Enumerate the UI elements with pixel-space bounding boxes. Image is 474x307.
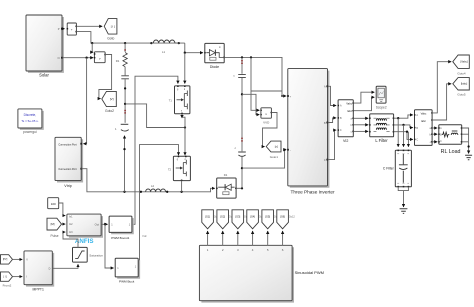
goto tag Goto5 [Iabc]: [453, 78, 470, 97]
svg-text:[x]: [x]: [275, 145, 278, 149]
svg-text:VVD: VVD: [263, 121, 270, 125]
wire VI2 c to L Filter: [353, 130, 368, 132]
wire top rail corner down to Diode input: [185, 43, 203, 53]
svg-text:D1: D1: [224, 173, 228, 177]
goto tag Goto4 [Vabc]: [453, 55, 470, 76]
wire C Filter bottoms joined to ground: [398, 187, 408, 191]
wire VI2 a to L Filter: [353, 117, 368, 119]
svg-text:C: C: [324, 159, 326, 162]
wire Solar.N to VM1 minus: [63, 57, 93, 59]
wire inverter B out to VI2 B: [328, 118, 337, 123]
svg-text:Goto5: Goto5: [457, 93, 466, 97]
wire VI2 b to L Filter: [353, 124, 368, 126]
wire CM1 to DC+ rail (top rail y43): [76, 32, 185, 43]
wire L Filter A to VI1 with C-filter tap: [394, 115, 413, 118]
svg-text:In1: In1: [69, 216, 73, 219]
goto tag Goto2 [V]: [102, 91, 117, 112]
svg-text:L Filter: L Filter: [375, 138, 388, 143]
svg-text:Saturation: Saturation: [89, 253, 103, 257]
junction bottom rail battery branch: [123, 191, 125, 193]
wire From1 to MPPT1: [13, 258, 23, 260]
svg-text:Iabc: Iabc: [421, 119, 427, 123]
svg-text:[M]: [M]: [51, 222, 55, 226]
wire DC- to inverter minus port: [242, 150, 286, 168]
wire gate T2 from PWM Buck (long vertical x139.5): [138, 145, 178, 267]
wire PWM out 6 up to tag S6: [282, 231, 284, 245]
voltage measurement VVD (DC link): [260, 108, 272, 125]
svg-text:Iabc: Iabc: [347, 109, 353, 113]
resistor R1 (vertical, on RC branch): [116, 43, 128, 67]
wire DC midpoint to VVD input 2: [242, 94, 259, 114]
wire PWM out 2 up to tag S2: [222, 231, 224, 245]
svg-text:Goto1: Goto1: [270, 155, 279, 159]
from tag Pulse [M]: [47, 218, 62, 238]
svg-text:Ts = 5e-05 s.: Ts = 5e-05 s.: [21, 119, 38, 123]
junction DC link midpoint: [241, 93, 243, 95]
voltage measurement VM1: [94, 52, 106, 63]
svg-text:[S2]: [S2]: [220, 215, 225, 219]
wire VI1 Iabc to Goto5: [432, 84, 451, 120]
svg-text:Goto: Goto: [107, 37, 114, 41]
junction bottom rail at buck gate wire: [140, 191, 142, 193]
svg-text:N: N: [58, 56, 60, 60]
svg-text:Three Phase Inverter: Three Phase Inverter: [290, 190, 334, 195]
junction on top rail at voltage-meas branch: [91, 42, 93, 44]
transistor T1 (boost MOSFET): [169, 85, 190, 114]
block PWM Boost1: [109, 216, 133, 240]
wire N rail down to Vtrip top port: [83, 58, 86, 144]
svg-text:MPPT1: MPPT1: [33, 287, 44, 291]
svg-text:Vdc: Vdc: [142, 234, 147, 238]
svg-text:P: P: [58, 27, 60, 31]
svg-text:Goto4: Goto4: [457, 72, 466, 76]
svg-text:RL Load: RL Load: [441, 149, 461, 155]
subsystem L Filter: [369, 114, 394, 143]
svg-text:D: D: [49, 267, 51, 270]
svg-text:Out: Out: [95, 222, 100, 226]
wire constant to ANFIS In1: [59, 203, 66, 216]
svg-text:Vabc: Vabc: [346, 101, 352, 105]
three-phase V-I measurement VI2: [338, 100, 354, 143]
wire Solar.P to CM1: [63, 28, 65, 30]
svg-text:VI2: VI2: [343, 139, 348, 143]
saturation block: [73, 247, 104, 262]
svg-text:C: C: [340, 129, 342, 132]
wire crosslink at y91: [251, 90, 282, 92]
subsystem Sinusoidal PWM: [199, 245, 324, 301]
wire inverter A out to VI2 A: [328, 86, 337, 105]
capacitor C1 (PV side): [121, 67, 129, 123]
svg-text:Goto2: Goto2: [105, 109, 114, 113]
ground G2 (RL Load neutral): [465, 155, 472, 159]
inductor L1 (boost): [151, 40, 178, 54]
wire L Filter B to VI1 with C-filter tap: [394, 125, 413, 128]
svg-text:C: C: [416, 139, 418, 142]
junction DC- at D1: [241, 187, 243, 189]
junction MOSFET1 drain tap: [184, 52, 186, 54]
svg-text:[S3]: [S3]: [235, 215, 240, 219]
junction on N wire to battery subsystem: [85, 57, 87, 59]
subsystem MPPT1: [24, 251, 53, 291]
junction DC link capacitor branch: [241, 56, 243, 58]
junction DC- branch to inverter: [241, 167, 243, 169]
wire battery node to MOSFET midpoint: [125, 104, 185, 128]
svg-text:[PV]: [PV]: [3, 259, 8, 261]
svg-text:L1: L1: [162, 50, 166, 54]
junction ANFIS out branch: [104, 223, 106, 225]
goto tag Goto7 [S1]: [202, 210, 219, 229]
svg-text:[Vabc]: [Vabc]: [460, 60, 467, 64]
ground G1 (below C Filter): [400, 209, 408, 214]
svg-text:From2: From2: [3, 283, 12, 287]
from tag From1 [V]: [1, 255, 13, 264]
wire Pulse to ANFIS In2: [62, 223, 66, 225]
wire Diode output DC+ rail to inverter: [224, 57, 286, 96]
svg-text:[ I ]: [ I ]: [3, 276, 7, 279]
junction MOSFET midpoint: [184, 126, 186, 128]
wire VI1 b to RL Load: [432, 133, 437, 135]
svg-text:[V]: [V]: [110, 97, 114, 101]
goto tag Goto9 [S3]: [232, 210, 249, 229]
subsystem Vtrip (battery, connection ports): [55, 137, 82, 188]
block PWM Buck: [115, 258, 139, 283]
wire CM1 signal to Goto [I]: [76, 25, 102, 27]
three-phase V-I measurement VI1 (load side): [414, 110, 433, 146]
svg-text:Solar: Solar: [39, 73, 49, 78]
svg-text:L2: L2: [151, 184, 155, 188]
wire inverter C out to VI2 C: [328, 130, 337, 160]
inductor L2 (buck): [146, 184, 166, 192]
wire PWM out 3 up to tag S3: [237, 231, 239, 245]
svg-text:powergui: powergui: [23, 130, 37, 134]
svg-text:Go12: Go12: [289, 216, 296, 219]
scope Scope2: [376, 86, 387, 109]
svg-text:In2: In2: [69, 223, 73, 226]
wire PWM out 5 up to tag S5: [267, 231, 269, 245]
junction battery tap node: [124, 103, 126, 105]
subsystem C Filter: [383, 150, 412, 188]
wire T1 source down to T2 drain (midpoint): [181, 114, 183, 118]
svg-text:[Iabc]: [Iabc]: [461, 82, 468, 86]
svg-text:Connection Port: Connection Port: [58, 167, 77, 171]
wire rail to VM1 plus input: [92, 43, 93, 52]
goto tag Goto8 [S2]: [217, 210, 234, 229]
svg-text:Connection Port: Connection Port: [58, 143, 77, 147]
wire VM1 output to Goto2: [99, 55, 112, 99]
svg-text:100: 100: [51, 202, 56, 206]
battery cell B1 (electrolytic symbol): [115, 124, 129, 131]
svg-text:[S5]: [S5]: [265, 215, 270, 219]
diode Diode (boost output diode): [204, 43, 225, 69]
junction inductor L1 right terminal: [178, 42, 180, 44]
wire RL Load star point to ground: [462, 128, 469, 142]
wire MPPT1 output up to saturation: [52, 264, 78, 268]
junction below C1: [124, 87, 126, 89]
svg-text:Pulse: Pulse: [51, 234, 59, 238]
svg-text:Diode: Diode: [210, 65, 219, 69]
goto tag Goto12 [S6]: [277, 210, 296, 229]
wire VI1 a to RL Load: [432, 127, 437, 129]
wire VI1 c to RL Load: [432, 141, 437, 143]
svg-text:PWM Boost1: PWM Boost1: [111, 236, 129, 240]
wire DC+ branch to VVD input 1: [251, 57, 259, 110]
wire L Filter C to VI1 with C-filter tap: [394, 132, 413, 140]
svg-text:Vtrip: Vtrip: [64, 184, 71, 188]
wire drain from rail junction to T1: [184, 53, 186, 84]
junction bottom rail MOSFET2 source: [180, 191, 182, 193]
capacitor C2 (DC link upper): [233, 57, 245, 151]
wire VI1 Vabc to Goto4: [432, 62, 451, 113]
junction inductor L1 left terminal: [150, 42, 152, 44]
junction on top rail at RC branch: [124, 42, 126, 44]
from tag From2 [I]: [1, 272, 13, 287]
svg-text:[S4]: [S4]: [250, 215, 255, 219]
goto tag Goto11 [S5]: [262, 210, 280, 229]
wire Vtrip bottom port to bottom rail y192: [81, 169, 214, 192]
svg-text:Sinusoidal PWM: Sinusoidal PWM: [295, 270, 324, 275]
wire From2 to MPPT1: [13, 276, 23, 278]
svg-text:[ I ]: [ I ]: [111, 24, 115, 28]
svg-text:Discrete,: Discrete,: [24, 113, 37, 117]
constant block 100: [48, 198, 59, 209]
subsystem Solar (PV array): [26, 15, 63, 78]
svg-text:m: m: [219, 46, 221, 49]
wire T2 source to bottom rail: [181, 181, 183, 192]
load RL Load: [438, 125, 462, 155]
svg-text:PWM Buck: PWM Buck: [119, 280, 135, 284]
wire battery minus up from bottom rail: [124, 136, 126, 192]
subsystem U1 Three Phase Inverter: [287, 69, 335, 195]
transistor T2 (buck MOSFET): [168, 156, 190, 181]
powergui block: [18, 109, 43, 134]
svg-text:R1: R1: [116, 59, 120, 63]
junction inductor L2 right terminal: [166, 191, 168, 193]
svg-text:In3: In3: [69, 231, 73, 234]
wire ANFIS out branch down to PWM Buck: [105, 224, 114, 268]
svg-text:Scope2: Scope2: [376, 105, 387, 109]
svg-text:+: +: [71, 28, 73, 32]
wire VVD output to Goto1: [263, 113, 278, 147]
goto tag Goto1 [x]: [266, 141, 281, 159]
subsystem ANFIS controller: [67, 214, 102, 245]
wire gate T1 from PWM Boost1 (long vertical x135): [132, 76, 178, 224]
svg-text:C Filter: C Filter: [383, 166, 395, 170]
diode D1 (freewheeling): [216, 173, 237, 198]
svg-text:Vabc: Vabc: [421, 112, 427, 116]
goto tag Goto [I]: [104, 19, 117, 41]
junction VVD branch: [250, 56, 252, 58]
wire saturation output to ANFIS In3: [63, 232, 78, 247]
wire PWM out 1 up to tag S1: [207, 231, 209, 245]
current measurement CM1: [67, 23, 77, 35]
svg-text:[S1]: [S1]: [205, 215, 210, 219]
capacitor C3 (DC link lower): [235, 138, 246, 189]
wire VI2 Iabc to Scope2: [353, 97, 374, 110]
wire ANFIS Out to PWM Boost1: [101, 223, 108, 225]
goto tag Goto10 [S4]: [247, 210, 266, 229]
wire PWM out 4 up to tag S4: [252, 231, 254, 245]
wire D1 cathode to DC- vertical: [236, 187, 242, 189]
svg-text:[S6]: [S6]: [280, 215, 285, 219]
junction on battery minus wire: [123, 148, 125, 150]
svg-text:-: -: [290, 148, 291, 152]
wire VI2 Vabc to Scope2: [353, 92, 374, 103]
